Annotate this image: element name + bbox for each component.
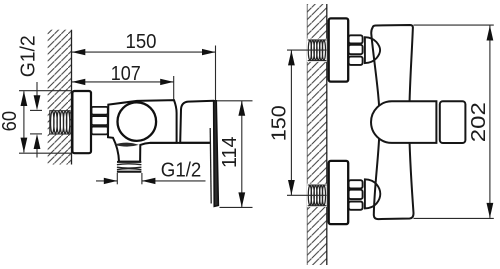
dimension 114: dimension line	[241, 101, 243, 208]
bottom escutcheon cover plate (right view)	[329, 161, 349, 224]
inlet thread G1/2 inside wall (left view)	[50, 111, 70, 134]
dimension 150: right arrowhead	[202, 49, 216, 55]
dimension 107: dimension line (left view)	[72, 81, 174, 83]
dimension 114: bottom extension line	[220, 206, 253, 208]
top escutcheon cover plate (right view)	[329, 18, 349, 81]
handle lever rear edge (left view)	[210, 128, 211, 204]
G1/2 outlet dim: left-pointing arrowhead	[142, 178, 156, 184]
wall back boundary line (right view)	[306, 4, 308, 265]
mixer body tube (right view)	[371, 25, 413, 219]
dimension 150 (inlet spacing): dimension line	[290, 50, 292, 195]
top inlet thread in wall (right view)	[307, 39, 327, 62]
dimension 60: dimension line	[23, 91, 25, 152]
G1/2 inlet dim: lower leader line	[36, 148, 38, 158]
G1/2 inlet dim: down arrowhead	[34, 95, 41, 110]
G1/2 outlet dim: left extension line	[116, 173, 118, 184]
dimension 202: dimension line	[489, 26, 491, 218]
G1/2 inlet dim: bottom tick	[30, 133, 42, 135]
bottom connector dome (right view)	[365, 179, 380, 208]
dimension 60: top tick line	[19, 90, 72, 92]
dimension 60: bottom tick line	[19, 152, 72, 154]
svg-text:G1/2: G1/2	[161, 159, 202, 181]
dimension 107: extension line at body (left view)	[173, 76, 175, 100]
dimension 202: up arrowhead	[487, 26, 494, 41]
G1/2 inlet dim: upper leader line	[36, 82, 38, 97]
G1/2 outlet dim: right line segment	[142, 180, 206, 182]
svg-text:202: 202	[468, 102, 490, 142]
G1/2 outlet dim: right-pointing arrowhead	[104, 178, 118, 184]
dimension 60: up arrowhead	[21, 91, 28, 106]
G1/2 outlet dim: right extension line	[141, 173, 143, 184]
svg-text:150: 150	[126, 31, 157, 53]
handle lever blade (left view)	[214, 101, 219, 207]
dimension 114: down arrowhead	[238, 192, 245, 207]
hex connector nut bars (left view)	[92, 107, 108, 134]
top inlet centerline	[287, 49, 327, 51]
dimension 114: up arrowhead	[238, 101, 245, 116]
dimension 107: right arrowhead	[160, 79, 174, 85]
wall face line (right view)	[326, 4, 328, 265]
dimension 150: extension line at handle (left view)	[215, 46, 217, 101]
G1/2 inlet dim: top tick	[30, 109, 42, 111]
svg-text:114: 114	[219, 137, 241, 169]
svg-text:150: 150	[269, 105, 291, 141]
top hex nut bars (right view)	[349, 35, 363, 65]
bottom inlet centerline	[287, 194, 327, 196]
mixer body outline with shower outlet (left view)	[108, 100, 177, 162]
dimension 150: left arrowhead	[72, 49, 86, 55]
handle boss bullet (right view)	[371, 101, 436, 143]
svg-text:60: 60	[0, 111, 21, 132]
outlet collar ring (left view)	[114, 143, 139, 147]
bottom hex nut bars (right view)	[349, 180, 363, 210]
bottom inlet thread in wall (right view)	[307, 184, 327, 207]
dimension 202: top extension line	[414, 24, 494, 26]
dimension 150: dimension line (left view)	[72, 51, 216, 53]
dimension 60: down arrowhead	[21, 138, 28, 153]
dimension 150 (inlet spacing): up arrowhead	[288, 50, 295, 65]
top connector dome (right view)	[365, 37, 380, 63]
dimension 202: bottom extension line	[414, 217, 494, 219]
dimension 150 (inlet spacing): down arrowhead	[288, 180, 295, 195]
handle base (left view)	[180, 101, 214, 143]
outlet thread G1/2 (left view)	[117, 162, 141, 172]
escutcheon cover plate (left view)	[72, 91, 91, 153]
dimension 107: left arrowhead	[72, 79, 86, 85]
G1/2 outlet dim: left line segment	[96, 180, 117, 182]
svg-text:107: 107	[111, 63, 141, 85]
svg-text:G1/2: G1/2	[18, 35, 40, 77]
dimension 114: top extension line	[217, 100, 253, 102]
wall hatch (right view)	[307, 4, 327, 265]
dimension 202: down arrowhead	[487, 203, 494, 218]
wall face line (left view)	[71, 30, 73, 165]
body bottom edge line (left view)	[150, 142, 211, 144]
G1/2 inlet dim: up arrowhead	[34, 134, 41, 149]
cartridge housing circle (left view)	[118, 102, 157, 141]
handle grip end cap (right view)	[440, 101, 466, 143]
wall hatch (left view)	[48, 30, 72, 165]
